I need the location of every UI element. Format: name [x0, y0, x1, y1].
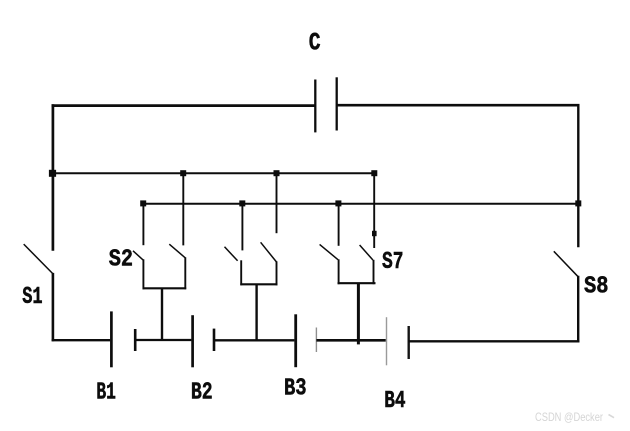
- svg-text:B2: B2: [191, 380, 213, 407]
- wire top right: [337, 104, 580, 107]
- wire B3 to B4: [316, 339, 385, 342]
- wire B2 to B3: [214, 339, 294, 341]
- battery B3: [296, 314, 317, 367]
- node A3: [371, 170, 377, 176]
- node A2: [274, 170, 280, 176]
- switch pair middle left: [225, 203, 243, 286]
- wire bus A: [52, 172, 375, 174]
- node B4: [575, 200, 581, 206]
- switch S1: [24, 244, 53, 341]
- battery B2: [193, 315, 214, 367]
- wire battery row right: [409, 340, 580, 342]
- svg-text:CSDN @Decker: CSDN @Decker: [535, 410, 603, 424]
- wire S7 stem: [357, 283, 360, 344]
- battery B4: [387, 317, 409, 365]
- node B3: [335, 200, 341, 206]
- switch pair S2 right: [169, 173, 185, 290]
- wire top left: [52, 104, 316, 107]
- wire battery row left: [52, 339, 111, 341]
- svg-text:B4: B4: [384, 388, 405, 415]
- node B2: [239, 200, 245, 206]
- wire S2 stem: [161, 288, 163, 340]
- switch pair S7 right: [360, 173, 377, 285]
- svg-text:S7: S7: [382, 249, 404, 276]
- watermark: [535, 410, 614, 424]
- battery B1: [111, 311, 135, 367]
- wire right vertical upper: [577, 104, 579, 247]
- node B1: [140, 200, 146, 206]
- wire S7 bottom bar: [338, 282, 376, 284]
- wire middle bottom bar: [240, 283, 277, 285]
- switch S8: [554, 251, 578, 342]
- svg-text:S8: S8: [584, 273, 609, 300]
- switch pair S2 left: [133, 203, 143, 290]
- wire middle stem: [255, 284, 257, 340]
- capacitor C: [315, 77, 336, 132]
- wire S2 bottom bar: [143, 287, 187, 289]
- switch pair S7 left: [320, 203, 339, 285]
- node left bus junction: [49, 170, 56, 177]
- svg-text:C: C: [309, 29, 321, 58]
- svg-text:S1: S1: [22, 284, 42, 311]
- wire left vertical upper: [52, 104, 55, 251]
- svg-text:S2: S2: [109, 246, 133, 273]
- wire bus B: [143, 203, 578, 205]
- node A1: [180, 170, 186, 176]
- svg-text:B3: B3: [284, 375, 307, 402]
- switch pair middle right: [261, 173, 277, 286]
- svg-text:B1: B1: [96, 380, 116, 407]
- wire B1 to B2: [135, 339, 191, 341]
